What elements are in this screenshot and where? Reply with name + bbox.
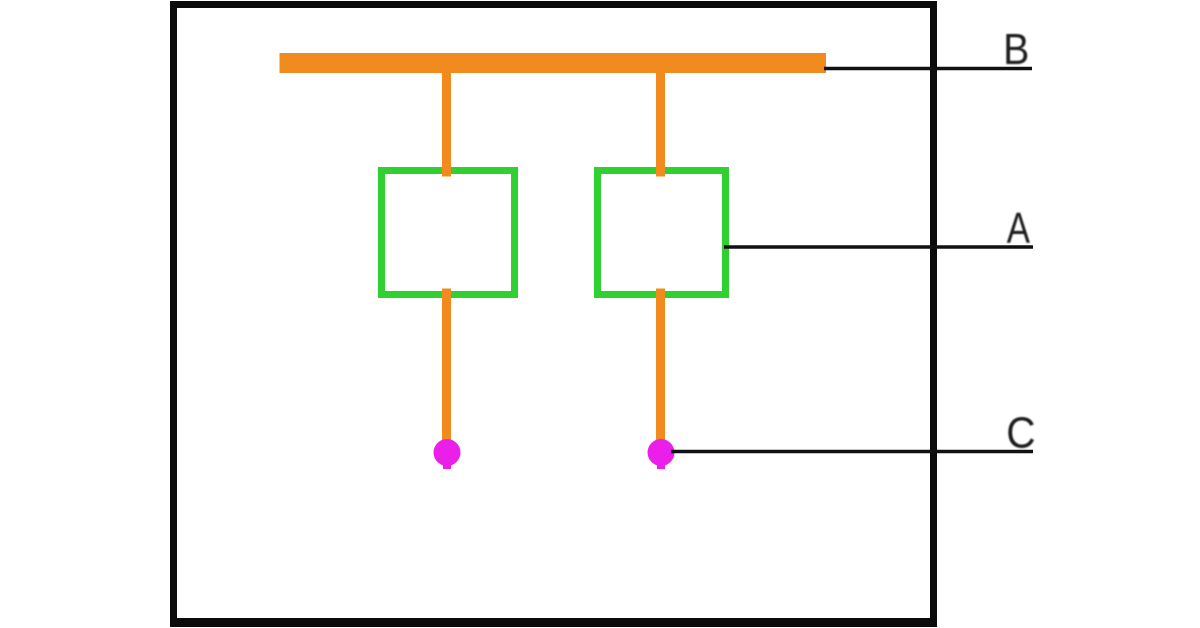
- wire from F2 to node C2: [656, 289, 665, 446]
- leader line to label B: [824, 67, 1032, 70]
- outer frame: [174, 5, 934, 624]
- wire from F1 to node C1: [442, 289, 451, 446]
- fuse box F2 (right green square): [598, 171, 726, 295]
- wire from bus to F2: [656, 60, 665, 177]
- svg-text:B: B: [1003, 26, 1029, 74]
- leader line to label C: [671, 450, 1033, 453]
- node C1 (magenta dot): [434, 439, 461, 469]
- wire from bus to F1: [442, 60, 451, 177]
- outer frame bottom edge (thicker): [170, 618, 936, 627]
- svg-text:A: A: [1007, 205, 1030, 253]
- svg-text:C: C: [1006, 409, 1035, 458]
- bus bar B (orange horizontal bar): [280, 53, 827, 73]
- node C2 (magenta dot): [648, 439, 675, 469]
- leader line to label A: [724, 245, 1033, 248]
- fuse box F1 (left green square): [382, 171, 515, 295]
